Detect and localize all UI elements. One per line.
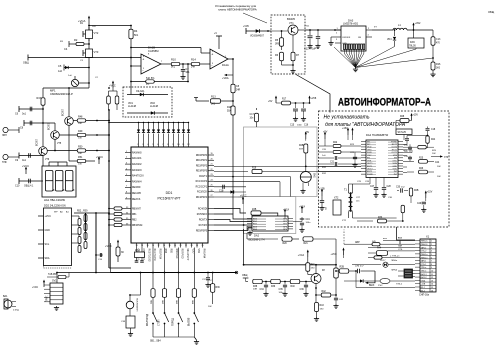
module outline [244, 127, 318, 197]
svg-text:+12В: +12В [319, 188, 325, 191]
svg-text:+V02: +V02 [415, 22, 422, 25]
resistor R6 [280, 52, 284, 61]
svg-text:RE1/WR: RE1/WR [132, 193, 141, 195]
svg-text:21: 21 [180, 245, 182, 247]
wire emitters [68, 125, 70, 156]
svg-text:VDD: VDD [367, 147, 372, 149]
svg-text:R4: R4 [134, 29, 138, 33]
resistor R47 [41, 98, 45, 106]
svg-text:для платы "АВТОИНФОРМАТОРА": для платы "АВТОИНФОРМАТОРА" [325, 122, 408, 128]
svg-text:27: 27 [211, 195, 213, 197]
op-amp DA1.1 [210, 49, 228, 69]
capacitor C17 [256, 108, 258, 110]
wire left button bus [140, 273, 142, 296]
wire R18 down [232, 197, 234, 214]
transistor VT5 [51, 131, 60, 140]
resistor R24 [426, 136, 429, 144]
diode VD2 [127, 112, 168, 114]
svg-text:R21: R21 [304, 243, 309, 245]
capacitor C7 [182, 64, 184, 69]
wire output +VDA [228, 58, 233, 60]
svg-text:RE0/RD: RE0/RD [132, 187, 141, 189]
svg-text:SV1: SV1 [52, 280, 57, 283]
svg-text:ВЫЗОВ: ВЫЗОВ [189, 317, 191, 326]
svg-text:R42: R42 [322, 291, 327, 293]
svg-text:OUT2: OUT2 [391, 147, 397, 149]
resistor R4 [129, 29, 133, 39]
resistor RX1 [368, 252, 376, 254]
svg-text:BC807: BC807 [49, 122, 51, 130]
svg-text:ОТБ: ОТБ [398, 249, 403, 251]
resistor R26 [407, 171, 414, 173]
ground DA2 [246, 226, 248, 230]
crystal ZQ1 [135, 252, 145, 258]
svg-text:R51: R51 [78, 156, 83, 159]
capacitor C6 [19, 108, 43, 110]
svg-text:23: 23 [191, 245, 193, 247]
wire RD0 [214, 165, 361, 167]
svg-text:RB6/PGC: RB6/PGC [175, 249, 177, 259]
diode VD1 [127, 94, 168, 96]
wire to R4 [89, 25, 131, 27]
svg-text:R48: R48 [78, 116, 83, 119]
svg-text:+V: +V [214, 32, 217, 35]
capacitor C8 [24, 122, 55, 124]
resistor R14 [191, 62, 200, 65]
mic capsule BM1 [300, 172, 311, 183]
svg-text:VDD: VDD [191, 249, 193, 254]
svg-text:R41: R41 [311, 264, 316, 266]
svg-text:LL4148: LL4148 [150, 105, 159, 108]
svg-text:LM2576-ADJ: LM2576-ADJ [343, 22, 359, 26]
resistor R25 [407, 160, 414, 162]
resistors R61-R64 [109, 208, 114, 210]
svg-text:20: 20 [211, 158, 213, 160]
resistor network R52-R59 [72, 215, 80, 217]
svg-text:10K: 10K [78, 153, 82, 155]
svg-text:SDA: SDA [45, 257, 50, 260]
wire DA2 bottom [243, 229, 245, 265]
power +VCA DA2 [288, 218, 293, 220]
svg-text:ВЫХ: ВЫХ [369, 284, 375, 287]
wire inverting input [131, 65, 141, 67]
capacitor C19b [408, 146, 412, 148]
svg-text:DA2: DA2 [254, 234, 260, 238]
wire DD2 bottom [56, 266, 58, 273]
diode VD18 [360, 279, 363, 282]
component U1 [334, 268, 339, 278]
resistor R7 [291, 52, 295, 61]
svg-text:C13: C13 [436, 38, 441, 41]
svg-text:а ТЛФ-ап: а ТЛФ-ап [390, 255, 400, 258]
svg-text:ОБЩ: ОБЩ [23, 62, 29, 65]
svg-text:24: 24 [196, 245, 198, 247]
transistor VT6 [39, 147, 48, 156]
svg-text:C4: C4 [64, 47, 68, 51]
transistor VT2 [86, 30, 93, 39]
svg-text:18: 18 [163, 245, 165, 247]
svg-text:ОБЩ: ОБЩ [488, 10, 495, 14]
svg-text:VT2: VT2 [94, 31, 99, 35]
transistor VT1 [288, 25, 298, 35]
svg-text:21: 21 [211, 164, 213, 166]
svg-text:R24: R24 [431, 139, 436, 141]
svg-text:24: 24 [211, 179, 213, 181]
svg-text:+VCC: +VCC [109, 85, 116, 88]
svg-text:10K: 10K [78, 138, 82, 140]
wire X1 extra1 [344, 243, 368, 245]
resistor R21 [292, 238, 299, 240]
wire to DA3 [305, 29, 341, 31]
svg-text:15: 15 [147, 245, 149, 247]
svg-text:5K1: 5K1 [171, 67, 176, 69]
svg-text:НВА-С294НК: НВА-С294НК [50, 199, 66, 202]
IC DA5 78L05 [408, 38, 424, 48]
resistor R43 [315, 284, 317, 289]
capacitor C20 [408, 156, 412, 158]
DA4 pins [361, 141, 366, 143]
transistor VT7 [311, 274, 321, 284]
svg-text:17: 17 [158, 245, 160, 247]
svg-text:GND: GND [45, 229, 51, 232]
svg-text:R50: R50 [78, 146, 83, 149]
resistor R15 [231, 84, 235, 93]
svg-text:22: 22 [185, 245, 187, 247]
svg-text:3K0: 3K0 [436, 68, 441, 70]
svg-text:RB3/PGM: RB3/PGM [132, 225, 142, 227]
wire to DA2 4 [214, 224, 252, 226]
svg-text:23: 23 [211, 174, 213, 176]
svg-text:25: 25 [211, 185, 213, 187]
buzzer [126, 301, 134, 309]
capacitor C23 [403, 143, 407, 145]
svg-text:КЗВ: КЗВ [252, 209, 257, 211]
capacitor C21 [319, 157, 335, 159]
wire X1 extra2 [352, 264, 368, 266]
capacitor C29 [422, 201, 426, 203]
IC DA2 [252, 216, 288, 231]
fan wire right 3 [356, 58, 434, 68]
svg-text:ТЛФ: ТЛФ [2, 161, 7, 164]
diode VD16 [214, 191, 246, 193]
wire input signal [28, 57, 141, 59]
fan wire right 1 [356, 47, 395, 68]
svg-text:+V01: +V01 [304, 26, 310, 28]
svg-text:ОБЩ 4.1: ОБЩ 4.1 [24, 186, 34, 188]
IC DD1 PIC16F877 [131, 147, 208, 243]
display HG1 [42, 166, 76, 197]
wire button return [153, 336, 194, 338]
resistor R41 [307, 252, 309, 258]
svg-text:RA2/AN2: RA2/AN2 [132, 163, 142, 166]
resistor R51 [77, 159, 86, 162]
svg-text:100n: 100n [306, 222, 312, 224]
resistor R60 [116, 247, 120, 256]
wire RC2 [214, 196, 238, 198]
power +5V mic [305, 134, 307, 140]
resistor R22 [319, 145, 333, 147]
capacitor C30 [400, 188, 402, 192]
feedback wire upper [131, 47, 201, 49]
svg-text:ЛИН-b: ЛИН-b [391, 270, 398, 272]
svg-text:ОК-ЗА1: ОК-ЗА1 [136, 90, 145, 93]
svg-text:VSS: VSS [197, 249, 199, 254]
svg-text:C17: C17 [250, 113, 255, 116]
svg-text:VT6: VT6 [45, 159, 50, 161]
connector X1 [420, 239, 436, 292]
svg-text:VT3: VT3 [94, 50, 99, 54]
svg-text:R47: R47 [37, 97, 42, 100]
svg-text:XT2: XT2 [334, 197, 339, 200]
svg-text:MCLR/VPP: MCLR/VPP [186, 249, 188, 261]
wires DA4 right [403, 143, 407, 145]
wire mic bus [43, 87, 89, 89]
wire DA4 in [319, 171, 362, 173]
dashed box amplifier [319, 111, 450, 227]
svg-text:R39: R39 [271, 286, 276, 288]
DA3 pins [335, 29, 341, 31]
svg-text:+5V: +5V [305, 131, 310, 134]
svg-text:RD0/PSP0: RD0/PSP0 [196, 155, 208, 157]
capacitor C5 [64, 67, 89, 69]
wire to DA2 5 [214, 228, 252, 231]
capacitor C34 [265, 281, 267, 283]
resistor R23 [319, 151, 333, 153]
svg-text:+15V: +15V [342, 127, 348, 130]
power +VCC arrow [25, 169, 27, 175]
svg-text:RB3/PGM: RB3/PGM [158, 249, 160, 259]
inductor L1 [372, 29, 393, 31]
svg-text:RB7/PGD: RB7/PGD [180, 249, 182, 259]
input jack XS2 [3, 154, 8, 159]
svg-text:ОБЩ: ОБЩ [242, 275, 248, 277]
svg-text:RD2/PSP2: RD2/PSP2 [196, 165, 208, 167]
svg-text:RA1/AN1: RA1/AN1 [132, 157, 142, 160]
svg-text:RB1: RB1 [132, 214, 137, 216]
connector XT2 [333, 200, 341, 215]
capacitor C19 [293, 221, 302, 223]
svg-text:+VCC: +VCC [22, 164, 29, 168]
power X1 [343, 250, 345, 256]
svg-text:+15V: +15V [413, 115, 419, 117]
dashed box VT1 [271, 15, 305, 74]
svg-text:СТОП: СТОП [159, 319, 161, 326]
DD1 left pins [125, 152, 131, 154]
capacitor C10 [19, 180, 43, 182]
svg-text:C16: C16 [304, 125, 309, 127]
svg-text:+V05: +V05 [243, 25, 249, 28]
resistor R16b [431, 62, 435, 70]
svg-text:TDA8932BTW: TDA8932BTW [372, 134, 389, 137]
wire RD2 [214, 176, 291, 178]
resistor R46 [375, 246, 377, 249]
power +VCA DA2b [301, 208, 303, 214]
svg-text:МЪ/ГОРОД: МЪ/ГОРОД [147, 314, 149, 326]
IC DD2 [44, 208, 72, 266]
svg-text:R2: R2 [74, 38, 78, 42]
svg-text:R38: R38 [253, 286, 258, 288]
svg-text:1u0: 1u0 [58, 70, 63, 73]
svg-text:24R: 24R [253, 289, 257, 291]
svg-text:5K1: 5K1 [211, 104, 216, 106]
wire +VCA rail [88, 23, 90, 88]
svg-text:BD435: BD435 [287, 17, 295, 21]
svg-text:R44: R44 [377, 248, 382, 250]
wire DD2 ground bus [95, 213, 97, 273]
wire X1 extra3 [390, 240, 400, 242]
junction dots bus [108, 120, 110, 122]
wire SV1 up [56, 273, 58, 284]
wire vyx [367, 271, 375, 283]
capacitor C22 [319, 163, 335, 165]
svg-text:RA5/AN4: RA5/AN4 [132, 180, 142, 183]
resistor R32 [403, 146, 417, 148]
resistor R48 [77, 119, 86, 122]
svg-text:R22: R22 [333, 142, 338, 144]
svg-text:10K: 10K [437, 176, 441, 178]
svg-text:0.5ГД: 0.5ГД [13, 310, 19, 312]
svg-text:VT5: VT5 [57, 143, 62, 145]
svg-text:+: + [211, 52, 213, 56]
power +12V mid [321, 191, 323, 197]
svg-text:платы АВТОИНФОРМАТОРА: платы АВТОИНФОРМАТОРА [218, 8, 257, 12]
svg-text:C34: C34 [260, 289, 265, 291]
svg-text:R16: R16 [436, 63, 441, 66]
svg-text:C15: C15 [290, 125, 295, 127]
wire X1 1 [400, 240, 415, 242]
fan wire left [334, 47, 356, 68]
svg-text:51K: 51K [227, 111, 232, 113]
svg-text:C10: C10 [15, 185, 20, 188]
svg-text:X1: X1 [426, 235, 430, 239]
resistor R36 [212, 272, 214, 274]
svg-text:+VCC: +VCC [45, 215, 52, 218]
svg-text:C36: C36 [300, 289, 305, 291]
fan wires to ground [343, 50, 345, 54]
transistor VT3 [86, 49, 93, 58]
resistor R17m [282, 101, 291, 105]
svg-text:C35: C35 [279, 289, 284, 291]
svg-text:3R0: 3R0 [275, 44, 280, 46]
svg-text:10K: 10K [208, 306, 212, 308]
svg-text:+VCC: +VCC [96, 155, 103, 159]
wire to DA2 2 [214, 214, 252, 219]
svg-text:C5: C5 [58, 64, 62, 68]
svg-text:+V08: +V08 [311, 97, 317, 100]
diode VD3 [246, 30, 271, 32]
svg-text:C27: C27 [370, 186, 375, 188]
svg-text:5K1: 5K1 [134, 34, 139, 37]
svg-text:R52...R59: R52...R59 [77, 211, 88, 213]
wire RD3 [214, 181, 280, 183]
speaker BA1 [4, 300, 12, 308]
svg-text:R2B: R2B [340, 267, 345, 269]
svg-text:R17: R17 [282, 99, 287, 101]
svg-text:19: 19 [169, 245, 171, 247]
capacitor C41 [335, 295, 337, 298]
svg-text:R28: R28 [400, 116, 405, 118]
power +15V right [425, 193, 427, 199]
wire display pins [48, 162, 50, 166]
dashed box VD1 VD2 [123, 87, 172, 117]
svg-text:WP: WP [54, 212, 58, 214]
svg-text:RA4/T0CKI: RA4/T0CKI [132, 175, 144, 178]
DD1 right pins [208, 154, 214, 156]
DA3 pin grid [344, 44, 346, 50]
svg-text:RD5/PSP5: RD5/PSP5 [196, 230, 208, 232]
capacitor C27 [375, 178, 377, 188]
wire audio bus [244, 264, 336, 266]
svg-text:+: + [142, 57, 144, 61]
svg-text:RA0/AN0: RA0/AN0 [132, 151, 142, 154]
svg-text:R19: R19 [252, 168, 257, 170]
svg-text:RD1/PSP1: RD1/PSP1 [196, 160, 208, 162]
svg-text:10K: 10K [432, 153, 436, 155]
svg-text:BST1: BST1 [392, 149, 398, 151]
svg-text:ВХ-2: ВХ-2 [421, 290, 425, 292]
component SK7x25 [396, 129, 412, 135]
wire left bus [42, 109, 44, 147]
svg-text:13: 13 [136, 245, 138, 247]
svg-text:RE2/CS: RE2/CS [132, 199, 141, 201]
svg-text:C24: C24 [435, 162, 440, 164]
svg-text:100n: 100n [279, 292, 285, 294]
svg-text:CA358M: CA358M [148, 49, 159, 53]
svg-text:78L05: 78L05 [409, 45, 416, 48]
resistor R16 R17 [107, 96, 111, 104]
svg-text:ГР: ГР [325, 207, 328, 210]
svg-text:+VCA: +VCA [283, 209, 290, 212]
svg-text:VD4: VD4 [387, 39, 392, 41]
svg-text:ВА1: ВА1 [3, 295, 8, 298]
svg-text:ZQ1: ZQ1 [135, 249, 140, 252]
svg-text:SCL: SCL [45, 243, 50, 246]
svg-text:GND: GND [367, 149, 372, 151]
diode VD17 [368, 264, 381, 266]
svg-text:+VDA: +VDA [222, 77, 229, 80]
resistor R21m [304, 144, 308, 153]
svg-text:RB5: RB5 [169, 249, 171, 254]
svg-text:VD17: VD17 [380, 260, 386, 262]
resistor R28o [336, 270, 339, 272]
svg-text:DA4: DA4 [366, 133, 372, 137]
wire X1 2 [368, 247, 415, 249]
resistor R11 feedback [131, 81, 188, 83]
resistor R18 [232, 101, 234, 106]
svg-text:CM060229F342-P: CM060229F342-P [50, 92, 73, 96]
wire box out [397, 227, 415, 240]
wire X1 4 [368, 287, 415, 289]
wire X1 3 [368, 257, 415, 259]
wire jumper diagonal [296, 75, 330, 113]
capacitor C9 [19, 155, 43, 157]
svg-text:АВР: АВР [355, 241, 360, 244]
svg-text:10K: 10K [78, 164, 82, 166]
wire main left bus [108, 110, 110, 268]
svg-text:22: 22 [211, 169, 213, 171]
svg-text:R49: R49 [78, 130, 83, 133]
svg-text:R10: R10 [171, 58, 176, 62]
svg-text:RC2/CCP1: RC2/CCP1 [196, 186, 208, 188]
svg-text:3%: 3% [146, 84, 149, 86]
svg-text:24R: 24R [236, 90, 241, 92]
svg-text:ВМ1: ВМ1 [313, 173, 315, 178]
optocoupler U2 [404, 269, 413, 278]
wire to DA2 3 [214, 220, 252, 222]
svg-text:BC807: BC807 [37, 138, 39, 146]
svg-text:SB1...SB4: SB1...SB4 [150, 341, 161, 343]
capacitor C18 [427, 127, 429, 129]
